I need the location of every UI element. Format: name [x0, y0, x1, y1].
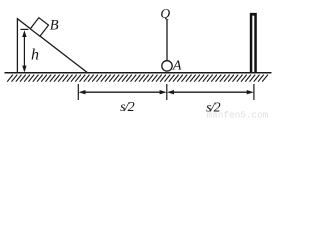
dimension arrow left (s/2 span): [79, 90, 167, 94]
svg-text:s/2: s/2: [120, 100, 135, 115]
svg-text:Q: Q: [160, 6, 170, 21]
svg-text:A: A: [172, 59, 182, 74]
pendulum string: [166, 20, 168, 61]
ground line: [5, 72, 272, 74]
dimension delimiter middle: [166, 84, 168, 100]
inclined plane (triangle): [17, 19, 87, 73]
svg-text:manfen5.com: manfen5.com: [207, 110, 269, 119]
h dimension arrow: [22, 30, 26, 72]
wall: [250, 13, 257, 73]
block B (square on incline): [30, 18, 48, 37]
ball A: [162, 61, 172, 71]
dimension delimiter right: [253, 84, 255, 100]
dimension delimiter left: [77, 84, 79, 100]
svg-text:B: B: [50, 17, 59, 33]
height tick mark: [20, 28, 28, 30]
dimension arrow right (s/2 span): [167, 90, 254, 94]
svg-text:h: h: [31, 46, 39, 63]
ground hatching: [7, 75, 268, 82]
